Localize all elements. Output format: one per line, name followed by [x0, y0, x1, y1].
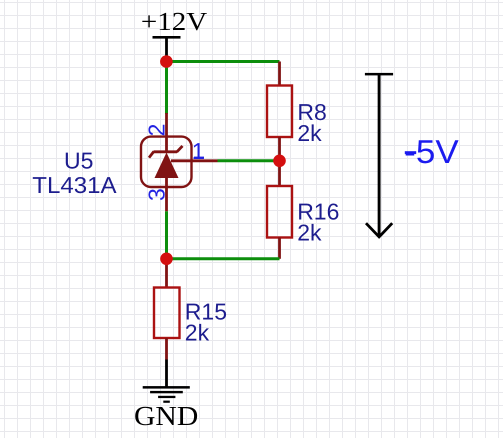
svg-text:U5: U5 [64, 148, 93, 174]
node C junction dot [160, 252, 173, 265]
U5 pin number 1 foot bar [194, 157, 204, 159]
resistor R8 body [267, 86, 292, 138]
svg-text:+12V: +12V [141, 7, 208, 36]
ground bar 1 [143, 386, 190, 389]
svg-text:1: 1 [192, 138, 205, 164]
power +12V bar symbol [153, 36, 181, 39]
resistor R16 bottom pin [278, 238, 281, 259]
resistor R15 bottom pin [165, 338, 168, 360]
resistor R8 top pin [278, 62, 281, 87]
U5 internal vertical (anode to pin 3) [165, 177, 168, 188]
wire green: from U5 pin 1 to node B [218, 159, 280, 162]
op-amp U5 TL431A body box [141, 137, 192, 187]
-5V label hyphen extender [405, 151, 416, 154]
resistor R15 body [154, 288, 180, 339]
wire green: vertical from node A down to U5 pin 2 [165, 62, 168, 115]
power +12V pin wire [165, 37, 168, 62]
U5 pin 3 (anode pin wire, bottom) [165, 187, 168, 211]
-5V measure arrowhead [366, 223, 392, 237]
ground bar 2 [150, 391, 183, 393]
wire green: top horizontal from node A to R8 [167, 60, 280, 63]
node B junction dot [273, 155, 286, 168]
svg-text:GND: GND [134, 400, 198, 431]
U5 pin 2 (cathode pin wire, top) [165, 113, 168, 152]
U5 zener bar right tick [177, 146, 183, 152]
U5 pin 1 (reference pin wire, right) [171, 159, 218, 162]
svg-text:3: 3 [143, 188, 169, 201]
ground pin wire [165, 360, 168, 388]
resistor R8 bottom pin [278, 137, 281, 161]
resistor R16 top pin [278, 161, 281, 187]
wire green: bottom horizontal from node C to R16 [167, 257, 280, 260]
svg-text:2k: 2k [297, 120, 322, 146]
-5V measure arrow shaft [378, 74, 381, 236]
U5 zener cathode bar [154, 150, 178, 153]
U5 zener triangle [155, 153, 179, 179]
-5V measure arrow top bar [365, 73, 393, 76]
svg-text:TL431A: TL431A [32, 172, 117, 198]
svg-text:2: 2 [143, 124, 169, 137]
ground bar 4 [163, 401, 170, 403]
wire green: from U5 pin 3 down to node C [165, 211, 168, 258]
svg-text:2k: 2k [185, 320, 210, 346]
svg-text:2k: 2k [297, 220, 322, 246]
ground bar 3 [158, 396, 175, 398]
svg-text:-5V: -5V [404, 133, 459, 170]
node A junction dot [160, 55, 173, 68]
resistor R16 body [267, 186, 292, 238]
resistor R15 top pin [165, 259, 168, 288]
U5 zener bar left tick [149, 152, 154, 158]
